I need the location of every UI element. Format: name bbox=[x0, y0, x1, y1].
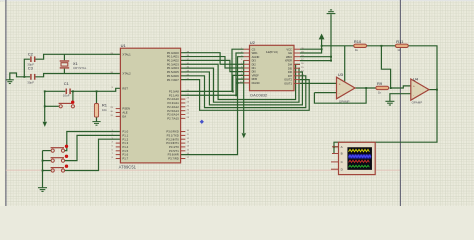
wire U2 VCC to power arrow and R10 bbox=[300, 39, 354, 53]
ground gnd1 (crystal) bbox=[6, 80, 14, 84]
wire U2 IOUT1 to U3 plus bbox=[300, 82, 337, 84]
svg-text:WR2: WR2 bbox=[286, 55, 292, 59]
svg-text:IOUT1: IOUT1 bbox=[284, 82, 292, 86]
svg-text:CRYSTAL: CRYSTAL bbox=[73, 66, 87, 70]
ground gnd5 (top, above U2 right) bbox=[327, 10, 336, 14]
svg-text:R1: R1 bbox=[102, 102, 108, 107]
svg-text:C1: C1 bbox=[64, 81, 70, 86]
svg-text:P1.7: P1.7 bbox=[122, 157, 128, 161]
ground gnd2 (R1) bbox=[92, 122, 100, 126]
wire down-arrow rail bbox=[44, 91, 46, 121]
svg-text:XTAL1: XTAL1 bbox=[122, 52, 131, 56]
svg-text:1k: 1k bbox=[378, 90, 382, 94]
svg-text:+: + bbox=[413, 85, 415, 89]
sheet border right bbox=[399, 0, 401, 206]
ground gnd3 (U4 plus) bbox=[385, 101, 394, 105]
wire button1 left bbox=[43, 150, 52, 152]
oscilloscope screen bbox=[348, 148, 372, 170]
power arrow (up) at U2 VCC bbox=[319, 34, 325, 40]
wire U4 plus to ground bbox=[390, 94, 411, 101]
wire buttons left rail bbox=[42, 151, 44, 188]
svg-text:ILE: ILE bbox=[288, 51, 292, 55]
svg-text:VCC: VCC bbox=[286, 47, 292, 51]
svg-text:XTAL2: XTAL2 bbox=[122, 72, 131, 76]
U2 pins right stubs bbox=[294, 49, 300, 83]
svg-text:10uF: 10uF bbox=[63, 94, 70, 98]
wire P3.6 to U2 row3 long vertical bbox=[181, 57, 244, 155]
button 3 bbox=[51, 168, 65, 172]
svg-text:AGND: AGND bbox=[252, 55, 260, 59]
wire ground1 to C3 bbox=[10, 73, 30, 80]
sheet border left bbox=[5, 0, 7, 206]
svg-text:IOUT2: IOUT2 bbox=[284, 78, 292, 82]
wire U3 out to R9 bbox=[355, 87, 375, 89]
wire R10 to R11 bbox=[367, 45, 396, 47]
svg-text:R10: R10 bbox=[354, 39, 362, 44]
svg-text:DI4: DI4 bbox=[288, 63, 293, 67]
wire button3 left bbox=[43, 170, 52, 172]
wire C3 to XTAL2 bbox=[36, 74, 121, 77]
svg-text:R9: R9 bbox=[377, 81, 383, 86]
wire R10 left vertical to U3 bbox=[344, 46, 346, 82]
svg-text:DI6: DI6 bbox=[288, 70, 293, 74]
op-amp U3 bbox=[337, 77, 356, 99]
svg-text:U3: U3 bbox=[338, 72, 344, 77]
svg-text:DI2: DI2 bbox=[252, 62, 257, 66]
svg-text:B: B bbox=[341, 152, 343, 156]
svg-text:RFB: RFB bbox=[252, 77, 258, 81]
wire button3 to P1.2 bbox=[65, 139, 121, 170]
wire U2 XFER to ground stem bbox=[300, 14, 331, 60]
svg-text:10k: 10k bbox=[102, 108, 107, 112]
svg-text:R11: R11 bbox=[396, 39, 404, 44]
wire reset cap C1 row to RST bbox=[45, 88, 121, 91]
svg-text:P3.7/RD: P3.7/RD bbox=[168, 157, 179, 161]
svg-text:DGND: DGND bbox=[252, 81, 260, 85]
ground gnd4 (buttons) bbox=[38, 188, 47, 192]
svg-text:A: A bbox=[341, 145, 343, 149]
wire P0.7 bus to IOUT2 row bbox=[181, 80, 310, 111]
wire P2.1 to U2 WR1 bbox=[181, 53, 244, 95]
svg-text:EA: EA bbox=[122, 115, 126, 119]
wire button2 left bbox=[43, 160, 52, 162]
wire P0.5 bus to DI6 bbox=[181, 72, 303, 105]
left pale strip bbox=[0, 2, 5, 206]
svg-text:DI7: DI7 bbox=[288, 74, 293, 78]
svg-text:RST: RST bbox=[122, 86, 128, 90]
U1 bare pins right (P2.2-P2.7, P3.0-P3.5, P3.7) bbox=[181, 99, 186, 158]
resistor R1 bbox=[94, 104, 98, 118]
U2 pin numbers bbox=[240, 48, 305, 84]
wire P0.0 to U2 DI2 bbox=[181, 53, 244, 65]
button 2 bbox=[51, 158, 65, 163]
svg-text:OPAMP: OPAMP bbox=[412, 101, 423, 105]
resistor R11 bbox=[395, 44, 408, 47]
svg-text:C2: C2 bbox=[28, 51, 34, 56]
svg-text:30pF: 30pF bbox=[27, 80, 34, 84]
wire scope A stub link bbox=[334, 146, 339, 148]
mcu U1 body bbox=[120, 48, 180, 163]
wire U2 row4 to ground arrow bbox=[243, 60, 245, 133]
wire button2 to P1.1 bbox=[65, 135, 121, 160]
wire P0.1 to U2 DI1 bbox=[181, 57, 244, 68]
svg-text:AT89C51: AT89C51 bbox=[119, 164, 137, 169]
scope trace yellow bbox=[349, 149, 370, 151]
svg-text:XFER: XFER bbox=[285, 59, 292, 63]
capacitor C3 bbox=[31, 74, 35, 80]
oscilloscope pins bbox=[331, 147, 339, 169]
svg-text:ILE(BY1/2): ILE(BY1/2) bbox=[266, 51, 278, 54]
U2 pin names bbox=[252, 47, 260, 85]
wire C2 branch vertical bbox=[24, 59, 30, 77]
svg-text:U1: U1 bbox=[121, 43, 127, 48]
wire U3 feedback loop bbox=[314, 88, 366, 103]
wire P0.3 bus to DI4 bbox=[181, 64, 300, 99]
U2 pins left stubs bbox=[244, 49, 250, 83]
wire U2 RFB drop bbox=[236, 79, 243, 95]
op-amp U4 bbox=[411, 79, 429, 100]
dac U2 body bbox=[250, 45, 295, 90]
wire C2 to XTAL1 bbox=[36, 54, 121, 59]
resistor R9 bbox=[376, 86, 389, 89]
wire R9 to U4 minus bbox=[391, 86, 411, 88]
oscilloscope body bbox=[339, 142, 376, 174]
wire button1 to P1.0 bbox=[65, 132, 121, 151]
wire U2 DGND stub bbox=[238, 82, 244, 84]
blue cursor marker bbox=[200, 120, 204, 124]
U1 bare pins left (PSEN ALE EA) bbox=[116, 109, 121, 159]
capacitor C1 bbox=[66, 89, 70, 95]
wire P0.6 bus to DI7 bbox=[181, 76, 306, 108]
wire U3 minus stub bbox=[314, 92, 336, 94]
resistor R10 bbox=[354, 44, 367, 47]
faint sheet frame line bbox=[6, 169, 401, 171]
scope pin names bbox=[341, 145, 344, 171]
U1 pin numbers bbox=[110, 53, 113, 159]
svg-text:U2: U2 bbox=[250, 40, 256, 45]
svg-text:P0.7/AD7: P0.7/AD7 bbox=[167, 78, 179, 82]
svg-text:CS: CS bbox=[252, 47, 256, 51]
svg-text:P2.7/A15: P2.7/A15 bbox=[167, 117, 179, 121]
svg-text:DI3: DI3 bbox=[252, 59, 257, 63]
capacitor C2 bbox=[31, 56, 35, 62]
svg-text:DI1: DI1 bbox=[252, 66, 257, 70]
svg-text:OPAMP: OPAMP bbox=[339, 100, 350, 104]
button RST bbox=[59, 103, 75, 108]
wire button RST right riser bbox=[72, 91, 74, 102]
svg-text:WR1: WR1 bbox=[252, 51, 258, 55]
wire P0.2 to U2 DI0 bbox=[181, 60, 244, 71]
button 1 bbox=[51, 148, 65, 153]
wire R11 to fb vertical bbox=[334, 46, 437, 154]
wire R10 R11 junction dogleg bbox=[381, 46, 390, 88]
wire button RST left bbox=[45, 105, 59, 107]
wire crystal top stub bbox=[63, 54, 65, 60]
svg-text:DAC0832: DAC0832 bbox=[250, 93, 267, 98]
crystal X1 bbox=[60, 61, 69, 68]
svg-text:U4: U4 bbox=[413, 76, 419, 81]
wire U4 out bbox=[429, 89, 437, 91]
svg-text:1k: 1k bbox=[355, 48, 359, 52]
scope trace green bbox=[349, 165, 370, 167]
svg-text:VREF: VREF bbox=[252, 74, 260, 78]
ground arrow (down) left reset rail bbox=[43, 122, 47, 127]
scope trace red bbox=[349, 160, 370, 162]
svg-text:DI5: DI5 bbox=[288, 66, 293, 70]
scope trace blue bbox=[349, 155, 371, 157]
svg-text:1k: 1k bbox=[397, 48, 401, 52]
scope blue band bbox=[348, 154, 371, 158]
wire R1 top stem bbox=[96, 91, 98, 103]
svg-text:+: + bbox=[339, 83, 341, 87]
wire P2.0 to U2 CS bbox=[181, 49, 244, 91]
wire U2 VREF drop bbox=[233, 75, 244, 91]
svg-text:DI0: DI0 bbox=[252, 70, 257, 74]
wire P0.4 bus to DI5 bbox=[181, 68, 300, 102]
U1 pin names bbox=[122, 52, 131, 160]
ground arrow (down) below U2 bbox=[242, 133, 246, 138]
top window strip bbox=[0, 0, 474, 1]
svg-text:C3: C3 bbox=[28, 65, 34, 70]
wire R1 bottom stem bbox=[96, 117, 98, 121]
wire crystal bottom stub bbox=[63, 69, 65, 74]
